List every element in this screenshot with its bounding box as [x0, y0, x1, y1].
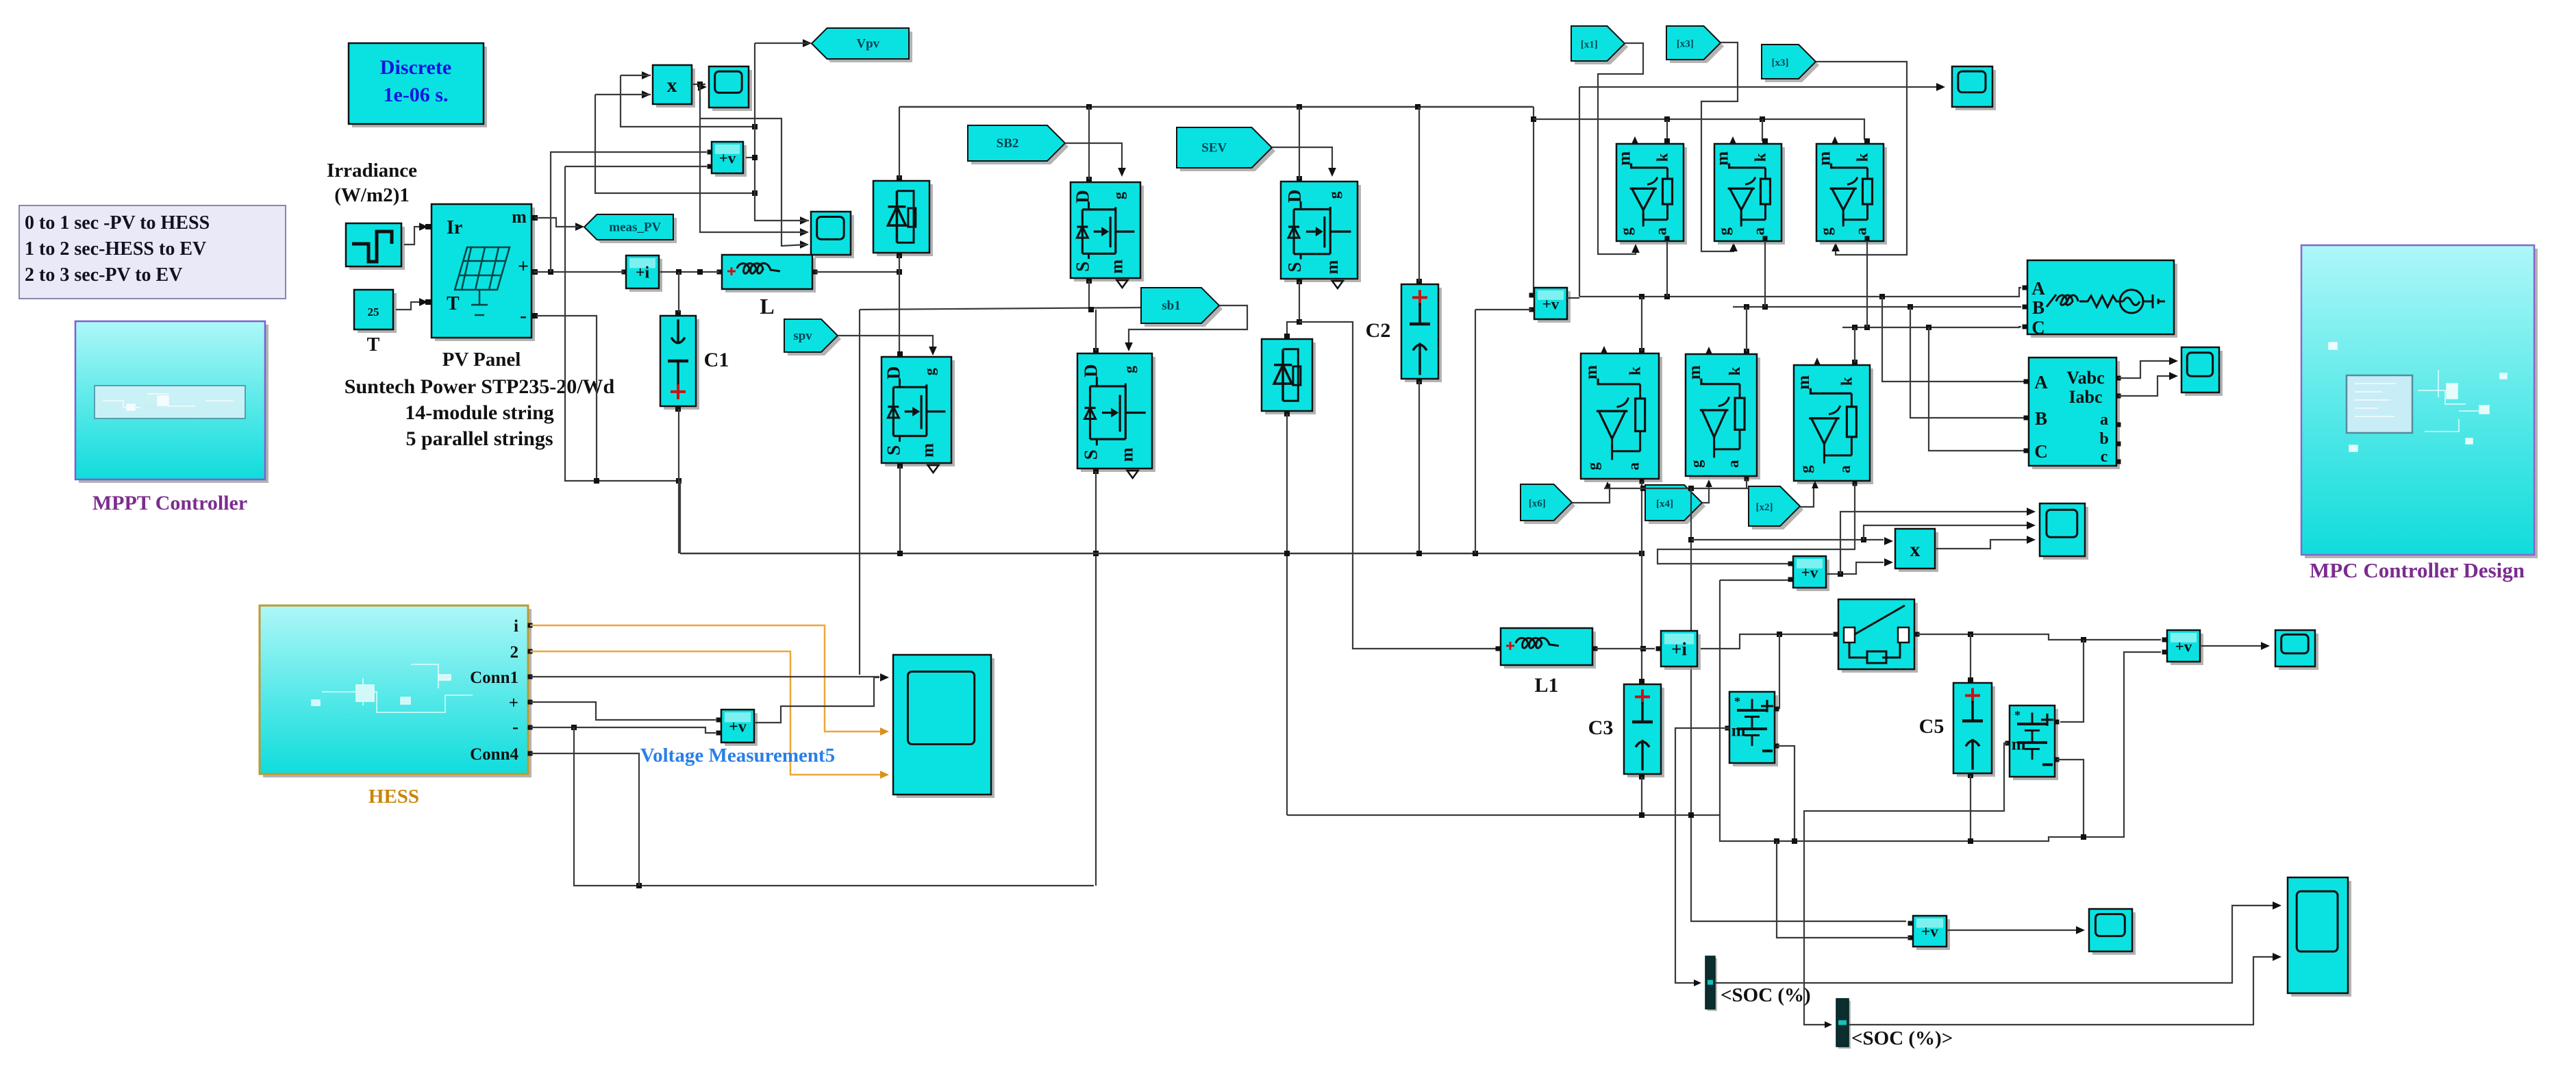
wire step to PV Ir [404, 227, 423, 245]
svg-text:D: D [1284, 190, 1305, 203]
wire +v7 out to scope7 [2200, 645, 2264, 647]
wire product input 1 [621, 75, 651, 76]
wire C1 bottom riser to bus [678, 409, 679, 553]
wire +i2 out to breaker [1701, 634, 1833, 649]
wire dc minus riser [1475, 310, 1476, 553]
goto tag meas_PV [588, 218, 677, 243]
wire switch node vertical [899, 255, 900, 353]
wire T3 anode down [1866, 241, 1868, 327]
capacitor C3 [1627, 688, 1664, 777]
svg-text:k: k [1853, 153, 1871, 162]
svg-text:C: C [2031, 317, 2045, 338]
from tag [x3] a [1670, 29, 1724, 63]
svg-text:k: k [1751, 153, 1768, 162]
inductor L [725, 258, 816, 292]
current measurement +i (PV) [629, 259, 662, 292]
scope Scope7 [2279, 634, 2318, 670]
svg-text:PV Panel: PV Panel [442, 349, 521, 371]
svg-text:HESS: HESS [368, 786, 419, 808]
svg-text:+v: +v [1801, 564, 1818, 581]
wire L out to switch node [815, 271, 899, 273]
diode D1 (boost) [877, 184, 933, 256]
wire T6 cathode up to phase C [1854, 327, 1855, 362]
wire +v input 2 feed [565, 166, 707, 167]
wire x2 out to scope10 [1935, 540, 2033, 549]
svg-text:g: g [1584, 462, 1601, 470]
thyristor T4 [1584, 357, 1662, 482]
wire scope3 feed [1579, 87, 1580, 297]
wire HESS + to +v5 [530, 702, 716, 720]
svg-text:A: A [2031, 278, 2045, 299]
svg-text:i: i [514, 617, 518, 636]
svg-text:m: m [1108, 260, 1126, 274]
svg-text:0 to 1 sec -PV to HESS: 0 to 1 sec -PV to HESS [25, 212, 210, 234]
current measurement +i2 [1664, 634, 1701, 670]
voltage measurement +v mid [1797, 560, 1829, 591]
+v DC link measurement [1538, 291, 1571, 323]
wire T5 anode stub [1746, 479, 1747, 488]
svg-text:*: * [1734, 695, 1740, 708]
svg-text:+: + [509, 694, 518, 712]
svg-text:meas_PV: meas_PV [609, 221, 661, 235]
bottom bus [680, 553, 1644, 554]
svg-text:C3: C3 [1588, 716, 1614, 739]
wire battery1 + riser [1779, 634, 1780, 709]
top DC bus [899, 106, 1534, 108]
svg-text:L: L [760, 294, 774, 319]
wire bus left riser [679, 481, 681, 553]
wire [x3]b to T3 gate [1816, 62, 1907, 255]
svg-text:x: x [1910, 538, 1921, 561]
battery Battery2 [2013, 709, 2058, 780]
wire C5 top riser [1970, 634, 1971, 679]
wire M3 source to bottom bus and HESS return [1095, 471, 1097, 886]
from tag [x6] [1524, 488, 1575, 524]
goto tag SB2 [971, 129, 1068, 164]
wire HESS - to +v5 [530, 727, 716, 733]
wire tap to Scope2 mid [700, 118, 807, 232]
wire selector1 to scope9 [1715, 906, 2276, 983]
svg-text:a: a [2100, 411, 2108, 429]
svg-text:1e-06 s.: 1e-06 s. [384, 84, 449, 106]
wire selector2 to scope9 [1849, 957, 2276, 1025]
svg-text:B: B [2035, 408, 2047, 429]
constant block T=25 [358, 293, 397, 333]
svg-text:S: S [1284, 262, 1305, 272]
wire M3 drain to mid rail [1095, 310, 1097, 351]
svg-text:g: g [1110, 192, 1127, 199]
wire low-rail tap to +v low in2 [1777, 841, 1910, 938]
svg-text:m: m [1731, 721, 1746, 740]
wire +v5 out to scope5 [754, 677, 879, 723]
wire T6 anode down and across [1658, 484, 1855, 564]
svg-text:Conn4: Conn4 [470, 745, 518, 764]
svg-text:C1: C1 [704, 349, 729, 371]
wire battery2 - down [2057, 760, 2084, 837]
svg-text:+v: +v [719, 149, 736, 166]
svg-text:<SOC (%)>: <SOC (%)> [1851, 1027, 1953, 1049]
wire +v out [746, 157, 755, 158]
wire spv to M2 gate [838, 336, 933, 351]
svg-text:C2: C2 [1366, 319, 1391, 342]
svg-text:1 to 2 sec-HESS to EV: 1 to 2 sec-HESS to EV [25, 238, 206, 260]
svg-text:g: g [1325, 191, 1342, 199]
battery feedback line to product x2 [1691, 539, 1884, 540]
wire +v low out to scope6 [1947, 929, 2079, 931]
svg-text:b: b [2099, 430, 2108, 448]
svg-text:-: - [512, 716, 518, 737]
subsystem MPC Controller Design [2305, 249, 2538, 558]
long feedback riser [1691, 488, 1906, 921]
svg-text:a: a [1625, 462, 1642, 470]
wire scope10 second input [1864, 525, 2033, 540]
wire HESS - return rail [574, 727, 1094, 886]
from tag [x2] [1752, 490, 1803, 529]
svg-text:D: D [1080, 364, 1101, 377]
annotation note: simulation schedule [19, 205, 286, 299]
svg-text:sb1: sb1 [1162, 299, 1180, 313]
svg-text:a: a [1725, 460, 1742, 468]
scope Scope3 [1955, 70, 1996, 110]
svg-text:[x6]: [x6] [1529, 499, 1546, 510]
svg-text:a: a [1853, 227, 1870, 236]
wire dc minus to +v [1475, 309, 1531, 310]
svg-text:+v: +v [2175, 638, 2192, 655]
voltage measurement +v5 [725, 713, 758, 746]
svg-text:a: a [1751, 227, 1768, 236]
svg-text:m: m [2012, 735, 2026, 753]
subsystem MPPT Controller [79, 325, 268, 483]
capacitor C2 [1405, 288, 1442, 382]
from tag [x1] [1575, 29, 1628, 64]
svg-text:S: S [1080, 449, 1101, 460]
svg-text:m: m [918, 443, 937, 458]
product block x2 [1899, 532, 1938, 572]
link line below thyristors [1604, 488, 1749, 489]
wire PV m to meas_PV [535, 218, 579, 227]
svg-text:a: a [1836, 465, 1853, 473]
wire breaker out [1917, 634, 2161, 640]
wire T4 anode column [1641, 482, 1642, 681]
wire HESS Conn1 to scope5 [530, 676, 879, 677]
scope Scope1 [712, 70, 752, 111]
wire phase C to meas C [1929, 327, 2025, 451]
wire M4 source to diode2 [1287, 282, 1299, 336]
wire M2 source to bottom bus [899, 466, 901, 553]
svg-text:SB2: SB2 [997, 136, 1019, 151]
goto tag Vpv [815, 32, 912, 62]
wire C1 top riser [678, 272, 679, 312]
wire HESS i (orange) to scope [530, 625, 884, 732]
wire to T2 k [1762, 119, 1763, 141]
wire battery1 - to low rail [1777, 746, 1795, 841]
svg-text:m: m [1795, 375, 1813, 390]
wire to Vpv tag [755, 42, 809, 44]
wire HESS Conn4 down [530, 753, 639, 886]
from tag [x3] b [1765, 48, 1819, 82]
thyristor T6 [1797, 369, 1873, 484]
svg-text:Iabc: Iabc [2068, 387, 2102, 407]
wire diode2 to bottom bus and battery rail [1286, 414, 1288, 815]
wire +i out to L [659, 271, 719, 273]
svg-text:SEV: SEV [1201, 141, 1227, 155]
svg-text:Suntech Power STP235-20/Wd: Suntech Power STP235-20/Wd [345, 375, 615, 398]
wire T2 anode down [1764, 241, 1766, 307]
svg-text:S: S [1073, 262, 1093, 272]
svg-text:g: g [1121, 366, 1138, 373]
phase C line [1842, 327, 2021, 327]
svg-text:+v: +v [1542, 295, 1560, 312]
wire [x4] to T5 gate [1702, 482, 1709, 503]
svg-text:m: m [1323, 260, 1342, 274]
scope Scope9 (SOC) [2291, 881, 2351, 997]
goto tag SEV [1180, 131, 1275, 171]
scope Scope10 (battery) [2043, 507, 2088, 560]
wire phase A to meas A [1882, 297, 2025, 382]
svg-text:k: k [1653, 153, 1671, 162]
scope Scope6 [2092, 912, 2136, 955]
svg-text:a: a [1653, 227, 1670, 236]
wire [x1] to T1 gate [1598, 43, 1643, 254]
subsystem HESS [263, 609, 532, 777]
goto tag sb1 [1145, 291, 1223, 327]
thyristor T3 [1820, 147, 1887, 245]
thyristor T1 [1620, 147, 1687, 245]
svg-text:g: g [1818, 227, 1835, 236]
svg-text:g: g [1688, 460, 1705, 468]
svg-text:<SOC (%): <SOC (%) [1721, 984, 1811, 1006]
wire HESS 2 (orange) to scope [530, 651, 884, 775]
PV Panel block [435, 208, 535, 341]
svg-text:[x3]: [x3] [1772, 58, 1789, 68]
wire +v mid in2 [1720, 579, 1790, 581]
svg-text:Voltage Measurement5: Voltage Measurement5 [640, 745, 835, 766]
svg-text:g: g [1797, 465, 1814, 473]
svg-text:L1: L1 [1534, 674, 1558, 697]
svg-text:m: m [1686, 365, 1704, 379]
scope Scope4 [2185, 351, 2223, 396]
svg-text:m: m [512, 207, 527, 227]
svg-text:14-module string: 14-module string [405, 401, 554, 424]
goto tag spv [788, 323, 841, 355]
svg-text:g: g [1618, 227, 1635, 236]
Discrete solver annotation block [352, 47, 487, 127]
wire battery2 + riser [2081, 637, 2086, 642]
wire 25 to PV T [396, 302, 423, 310]
MOSFET M4 (SEV) [1284, 185, 1361, 282]
svg-text:m: m [1582, 365, 1601, 379]
svg-text:C5: C5 [1919, 715, 1944, 738]
svg-text:spv: spv [793, 329, 812, 343]
svg-text:+i: +i [636, 264, 650, 282]
wire Vpv net lower tap [595, 95, 755, 193]
voltage measurement +v (PV) [715, 145, 747, 177]
svg-text:Irradiance: Irradiance [327, 160, 417, 182]
svg-text:+v: +v [729, 719, 747, 736]
wire PV- down [536, 316, 597, 481]
svg-text:k: k [1627, 366, 1644, 375]
svg-text:Discrete: Discrete [380, 56, 451, 79]
svg-text:5 parallel strings: 5 parallel strings [406, 427, 553, 450]
svg-text:c: c [2101, 448, 2108, 466]
svg-text:T: T [367, 334, 380, 355]
svg-text:MPPT Controller: MPPT Controller [92, 492, 247, 514]
wire SEV to M4 gate [1272, 147, 1332, 173]
phase A line [1579, 288, 2021, 297]
scope Scope2 [814, 215, 854, 258]
svg-text:+: + [518, 256, 529, 277]
svg-text:Ir: Ir [447, 217, 462, 238]
wire C5 bottom riser [1970, 775, 1971, 841]
product block x (PV power) [656, 68, 695, 108]
capacitor C5 [1957, 686, 1995, 777]
wire [x6] to T4 gate [1572, 484, 1610, 503]
wire T1 anode down [1666, 241, 1668, 297]
capacitor C1 [664, 319, 699, 410]
wire product input 2 [595, 94, 651, 95]
from tag [x4] [1649, 488, 1705, 524]
svg-text:*: * [2014, 708, 2021, 722]
svg-text:m: m [1118, 447, 1137, 462]
wire PV+ tap to +v input 1 [551, 152, 707, 272]
wire +v mid out [1826, 562, 1884, 574]
bus selector SOC 1 [1708, 958, 1717, 1011]
wire PV+ to +i [534, 271, 624, 273]
diode D2 (EV leg) [1265, 342, 1316, 414]
svg-text:[x1]: [x1] [1581, 40, 1598, 51]
three-phase VI measurement block [2032, 361, 2120, 469]
wire PV- rail to C1 node [565, 166, 679, 481]
circuit breaker [1842, 603, 1918, 673]
wire +v mid out to scope10 [1840, 512, 2033, 574]
wire C2 top riser [1418, 107, 1420, 282]
svg-text:D: D [884, 366, 904, 380]
step source Irradiance [349, 227, 405, 270]
wire Iabc out to scope4 [2118, 376, 2175, 396]
scope Scope5 (HESS) [897, 658, 995, 798]
svg-text:g: g [921, 368, 938, 375]
wire sb1 to M3 gate [1129, 305, 1247, 347]
wire M1 source down to mid rail [1088, 281, 1090, 310]
wire battery2 m to SOC selector2 [1804, 743, 2008, 1025]
wire Vpv vertical net to Scope2 [755, 43, 809, 221]
MOSFET M2 (spv) [885, 360, 955, 466]
wire phase B to meas B [1910, 307, 2025, 418]
wire Vabc out to scope4 [2118, 361, 2175, 378]
svg-text:D: D [1073, 190, 1093, 203]
svg-text:C: C [2034, 441, 2048, 462]
svg-text:Conn1: Conn1 [470, 669, 518, 687]
wire battery1 m to SOC selector1 [1675, 728, 1729, 983]
svg-text:x: x [667, 74, 677, 97]
wire L1 to +i2 [1595, 648, 1655, 649]
wire C2 bottom riser [1418, 382, 1420, 553]
wire T5 cathode up to phase B [1746, 307, 1747, 351]
thyristor T2 [1718, 147, 1785, 245]
wire T4 cathode up to phase A [1641, 297, 1642, 351]
mid rail (half-bridge node) [860, 308, 1141, 310]
svg-text:+i: +i [1671, 638, 1687, 659]
wire C3 bottom riser [1641, 777, 1642, 815]
svg-text:MPC Controller Design: MPC Controller Design [2310, 558, 2525, 582]
svg-text:S: S [884, 445, 904, 455]
svg-text:[x2]: [x2] [1756, 502, 1773, 513]
three-phase source block [2031, 264, 2177, 338]
svg-text:g: g [1716, 227, 1733, 236]
wire mid rail feedback down to scope5 [859, 310, 860, 675]
wire +v out to phase node [1567, 297, 1579, 299]
wire C5-net measurement riser [1719, 580, 1721, 815]
svg-text:(W/m2)1: (W/m2)1 [334, 184, 410, 206]
wire diode1 to top bus [899, 107, 900, 178]
phase B line [1733, 306, 2021, 308]
svg-text:2 to 3 sec-PV to EV: 2 to 3 sec-PV to EV [25, 264, 182, 286]
wire [x2] to T6 gate [1800, 484, 1814, 507]
svg-text:2: 2 [510, 643, 519, 662]
wire M4 drain to bus [1299, 107, 1300, 179]
dc link measurement riser [1531, 107, 1534, 295]
svg-text:[x4]: [x4] [1656, 499, 1673, 510]
MOSFET M3 (sb1) [1081, 357, 1155, 472]
svg-text:k: k [1838, 377, 1855, 386]
svg-text:Vabc: Vabc [2066, 368, 2104, 388]
svg-text:B: B [2032, 297, 2044, 318]
bus selector SOC 2 [1838, 1001, 1851, 1049]
inductor L1 [1504, 632, 1596, 669]
voltage measurement +v low [1916, 919, 1950, 950]
svg-text:+v: +v [1921, 923, 1938, 940]
wire to T1 k [1666, 119, 1668, 141]
battery Battery1 [1733, 695, 1778, 766]
gate bus to thyristor cathodes [1534, 119, 1864, 140]
wire x out down to Scope2 [700, 84, 807, 246]
voltage measurement +v7 [2171, 634, 2203, 665]
thyristor T5 [1689, 358, 1760, 479]
svg-text:Vpv: Vpv [856, 37, 879, 51]
wire low rail to +v7 [1287, 652, 2161, 841]
svg-text:T: T [447, 293, 460, 314]
svg-text:25: 25 [368, 305, 379, 319]
MOSFET M1 (SB2) [1074, 186, 1144, 282]
svg-text:[x3]: [x3] [1677, 39, 1694, 50]
wire M1 drain to bus [1088, 107, 1090, 179]
wire SB2 to M1 gate [1065, 143, 1122, 173]
wire Vpv net to product [621, 75, 755, 127]
wire x out to Scope1 [692, 84, 705, 85]
wire EV switch node to L1 [1299, 322, 1497, 649]
svg-text:A: A [2034, 372, 2048, 392]
svg-text:-: - [520, 304, 527, 327]
wire [x3]a to T2 gate [1701, 42, 1738, 251]
svg-text:k: k [1726, 366, 1743, 375]
